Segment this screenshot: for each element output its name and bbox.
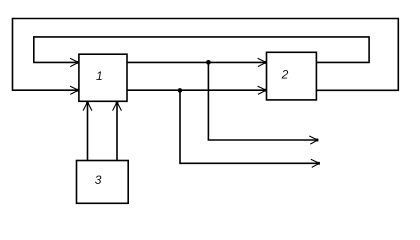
wire block1 to block2 upper signal: [127, 61, 265, 63]
block 3: [77, 161, 129, 204]
wire block1 to block2 lower signal: [127, 89, 265, 91]
arrowhead into block 2 upper input: [258, 58, 267, 66]
svg-text:1: 1: [96, 69, 103, 83]
wire branch from upper junction down then right to output 1: [208, 62, 316, 140]
arrowhead into block 1 upper-left input: [70, 58, 79, 66]
wire branch from lower junction down then right to output 2: [180, 90, 318, 163]
node junction dot on upper signal: [206, 60, 211, 65]
arrowhead into block 1 lower-left input: [70, 86, 79, 94]
svg-text:3: 3: [95, 173, 102, 187]
node junction dot on lower signal: [178, 88, 183, 93]
wire outer feedback loop: block2 lower output right, up, across top, down left: [13, 19, 399, 91]
arrowhead output 2: [311, 159, 320, 167]
block 1: [79, 54, 127, 101]
block 2: [267, 52, 317, 100]
arrowhead block3 left arrow (up): [83, 102, 92, 111]
svg-text:2: 2: [281, 68, 289, 82]
wire block3 to block1 left vertical: [87, 103, 89, 161]
wire inner feedback loop: block2 upper output right, up, across, down left: [34, 37, 369, 63]
arrowhead output 1: [309, 136, 318, 144]
arrowhead block3 right arrow (up): [113, 102, 122, 111]
wire block3 to block1 right vertical: [116, 103, 118, 161]
arrowhead into block 2 lower input: [258, 86, 267, 94]
